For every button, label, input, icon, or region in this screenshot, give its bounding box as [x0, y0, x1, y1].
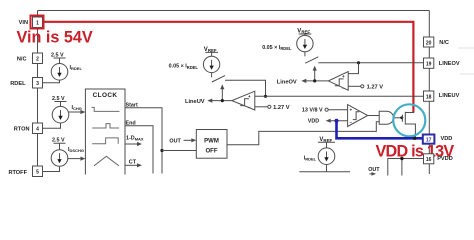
annotation blue VDD wire	[337, 121, 423, 139]
pin 18 (LINEUV)	[424, 91, 434, 101]
svg-text:5: 5	[36, 170, 39, 176]
CLOCK block	[85, 89, 125, 175]
waveform start edge	[92, 107, 120, 111]
junction MOSFET source to VDD net	[413, 137, 416, 140]
wire UV plus input to pin 18	[255, 95, 424, 97]
wire pin4 to ICHG source	[43, 123, 61, 128]
pin 19 (LINEOV)	[424, 58, 434, 68]
current source IRDEL	[51, 64, 68, 81]
switch (OV hysteresis)	[305, 52, 318, 63]
wire VIN net (black under red)	[44, 22, 415, 113]
annotation blue junction dot	[335, 119, 339, 123]
svg-text:N/C: N/C	[439, 40, 449, 46]
node junction at UV plus input	[264, 95, 267, 98]
svg-text:1.27 V: 1.27 V	[367, 85, 384, 91]
current source IDSCHG	[51, 150, 68, 167]
wire PVDD rail	[388, 159, 424, 176]
pin 17 (VDD) blue highlighted	[423, 135, 435, 144]
waveform wide pulse	[92, 138, 118, 144]
pin 1 (VIN)	[33, 17, 43, 28]
svg-text:PWM: PWM	[204, 139, 219, 145]
svg-text:4: 4	[36, 127, 39, 133]
current source IRDEL bottom	[318, 148, 335, 165]
comparator LineUV	[232, 91, 255, 110]
IC boundary top edge	[38, 10, 430, 12]
MOSFET Q1 startup	[402, 112, 415, 139]
annotation cyan circle around MOSFET	[393, 104, 425, 136]
junction start/PWM	[160, 149, 163, 152]
annotation red wire VIN net	[44, 22, 414, 112]
svg-text:LINEOV: LINEOV	[439, 61, 460, 67]
svg-text:IDSCHG: IDSCHG	[68, 147, 84, 153]
switch control arrow (UV)	[221, 88, 223, 101]
pin 2 (N/C)	[33, 53, 43, 64]
wire UV minus input to 1.27V	[255, 106, 268, 108]
svg-text:20: 20	[426, 40, 432, 46]
wire junction to PWM block	[162, 150, 196, 152]
current source ICHG	[52, 106, 69, 123]
svg-text:VDD: VDD	[441, 136, 453, 142]
switch control arrow (OV)	[314, 69, 316, 81]
current source 0.05xIRDEL (UV)	[203, 56, 219, 72]
svg-text:OFF: OFF	[206, 149, 218, 155]
wire ICHG into CLOCK	[69, 111, 83, 113]
svg-text:1.27 V: 1.27 V	[273, 105, 290, 111]
AND gate U-gate	[379, 111, 393, 124]
svg-text:Vin is 54V: Vin is 54V	[17, 29, 93, 47]
svg-text:VIN: VIN	[19, 20, 28, 26]
wire AND output to MOSFET gate	[394, 117, 403, 119]
comparator LineOV	[328, 72, 348, 91]
wire junction down to OV plus input	[348, 63, 358, 74]
svg-text:OUT: OUT	[368, 167, 380, 173]
svg-text:LineOV: LineOV	[277, 79, 297, 85]
wire IDSCHG into CLOCK	[68, 158, 83, 160]
pin 16 (PVDD)	[424, 154, 434, 164]
waveform narrow pulse	[92, 124, 119, 128]
svg-text:1: 1	[36, 21, 39, 27]
svg-text:ICHG: ICHG	[72, 105, 82, 111]
svg-text:0.05 × IRDEL: 0.05 × IRDEL	[169, 64, 199, 70]
pin 3 (RDEL)	[33, 78, 43, 89]
node junction OV	[357, 61, 360, 64]
svg-text:N/C: N/C	[17, 57, 27, 63]
waveform triangle ramp	[94, 156, 119, 166]
wire switch to comparator node	[225, 80, 266, 96]
pin 4 (RTON)	[33, 123, 43, 134]
annotation red box around pin 1	[31, 16, 44, 29]
svg-text:IRDEL: IRDEL	[70, 65, 83, 71]
faint page line right 2	[460, 73, 474, 75]
svg-text:VDD: VDD	[308, 119, 319, 125]
svg-text:–: –	[350, 120, 353, 125]
svg-text:17: 17	[426, 138, 432, 144]
svg-text:0.05 × IRDEL: 0.05 × IRDEL	[262, 45, 292, 51]
svg-text:CLOCK: CLOCK	[93, 92, 118, 99]
svg-text:RDEL: RDEL	[10, 81, 26, 87]
wire IRDEL bottom to rail	[299, 165, 350, 172]
wire pin3 to IRDEL source	[43, 81, 60, 83]
svg-text:PVDD: PVDD	[437, 156, 453, 162]
switch (UV hysteresis)	[212, 73, 225, 82]
svg-text:LINEUV: LINEUV	[439, 93, 460, 99]
wire switch to pin 19	[318, 62, 423, 64]
IC boundary left edge	[37, 11, 39, 168]
svg-text:2.5 V: 2.5 V	[52, 138, 65, 144]
IC boundary right edge	[428, 11, 430, 175]
comparator VDD 13V/8V	[348, 105, 368, 127]
faint page line right 1	[458, 47, 474, 49]
svg-text:–: –	[248, 105, 251, 110]
wire PWM output to AND gate input	[227, 122, 379, 145]
svg-text:2: 2	[36, 57, 39, 63]
svg-text:13 V/8 V: 13 V/8 V	[302, 108, 323, 114]
svg-text:LineUV: LineUV	[185, 99, 205, 105]
svg-text:RTOFF: RTOFF	[8, 170, 27, 176]
svg-text:+: +	[342, 74, 345, 79]
wire VDD net (black under blue)	[337, 121, 423, 139]
svg-text:IRDEL: IRDEL	[304, 155, 317, 161]
svg-text:16: 16	[426, 157, 432, 163]
svg-text:+: +	[248, 94, 251, 99]
current source 0.05xIRDEL (OV)	[297, 35, 313, 51]
svg-text:–: –	[342, 85, 345, 90]
pin 5 (RTOFF)	[33, 166, 43, 177]
svg-text:19: 19	[426, 61, 432, 67]
svg-text:+: +	[350, 108, 353, 113]
wire 13V/8V to comparator	[328, 109, 347, 111]
junction PVDD	[400, 157, 403, 160]
svg-text:RTON: RTON	[14, 127, 30, 133]
svg-text:OUT: OUT	[169, 138, 181, 144]
svg-text:CT: CT	[129, 159, 137, 165]
wire OV minus input to 1.27V	[348, 85, 360, 87]
wire comparator to AND gate	[368, 115, 380, 117]
pin 20 (N/C)	[424, 37, 434, 47]
wire pin5 to IDSCHG source	[43, 167, 60, 172]
svg-text:18: 18	[426, 94, 432, 100]
LineUV output wire and label	[211, 100, 232, 102]
LineOV output wire and label	[305, 80, 329, 82]
svg-text:1-DMAX: 1-DMAX	[126, 136, 144, 142]
svg-text:3: 3	[36, 81, 39, 87]
PWM OFF block	[196, 130, 227, 159]
